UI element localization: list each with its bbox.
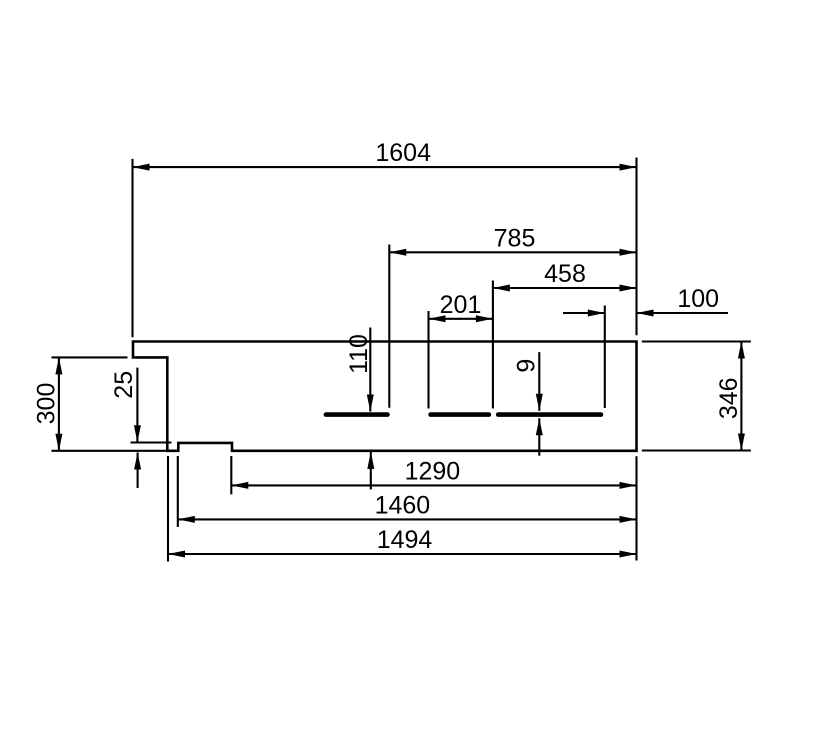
extension line at 1494 left — [167, 456, 169, 562]
dimension 25 — [110, 368, 141, 488]
extension line at 100 left — [604, 306, 606, 409]
dimension 1460 — [178, 492, 637, 523]
dimension 785 — [389, 224, 636, 255]
svg-text:1460: 1460 — [375, 492, 431, 520]
svg-text:1604: 1604 — [375, 139, 431, 167]
dimension 458 — [493, 260, 637, 291]
svg-text:300: 300 — [32, 383, 60, 425]
dimension 9 — [512, 352, 543, 456]
slot plate 3 — [498, 412, 601, 417]
extension line at 1290 left — [230, 456, 232, 494]
dimension 1604 — [133, 139, 637, 170]
extension line 300 bottom — [52, 450, 167, 452]
extension line right above part — [635, 158, 637, 336]
extension line 346 bottom — [642, 449, 751, 451]
slot plate 1 — [326, 412, 388, 417]
dimension 346 — [715, 342, 745, 451]
dimension 100 — [563, 285, 728, 316]
dimension 1290 — [231, 457, 636, 489]
part outline — [133, 342, 637, 451]
extension line at 785 left — [388, 245, 390, 408]
svg-text:25: 25 — [110, 371, 138, 399]
extension line notch top for 25 — [131, 441, 172, 443]
extension line at 201 left — [427, 311, 429, 409]
dimension 1494 — [168, 526, 637, 558]
extension line left of 1604 — [131, 159, 133, 337]
svg-text:9: 9 — [512, 359, 540, 373]
dimension 110 — [345, 328, 374, 490]
svg-text:1290: 1290 — [405, 457, 461, 485]
svg-text:100: 100 — [677, 285, 719, 313]
dimension 201 — [429, 291, 493, 322]
svg-text:201: 201 — [440, 291, 482, 319]
svg-text:110: 110 — [345, 334, 373, 374]
dimension 300 — [32, 357, 62, 450]
extension line at 458 left — [492, 281, 494, 409]
extension line 300 top — [52, 356, 128, 358]
extension line right below part — [635, 456, 637, 560]
svg-text:346: 346 — [715, 377, 743, 419]
extension line 346 top — [642, 340, 751, 342]
svg-text:458: 458 — [544, 260, 586, 288]
slot plate 2 — [431, 412, 489, 417]
svg-text:1494: 1494 — [377, 526, 433, 554]
extension line at 1460 left — [177, 456, 179, 527]
svg-text:785: 785 — [494, 224, 536, 252]
